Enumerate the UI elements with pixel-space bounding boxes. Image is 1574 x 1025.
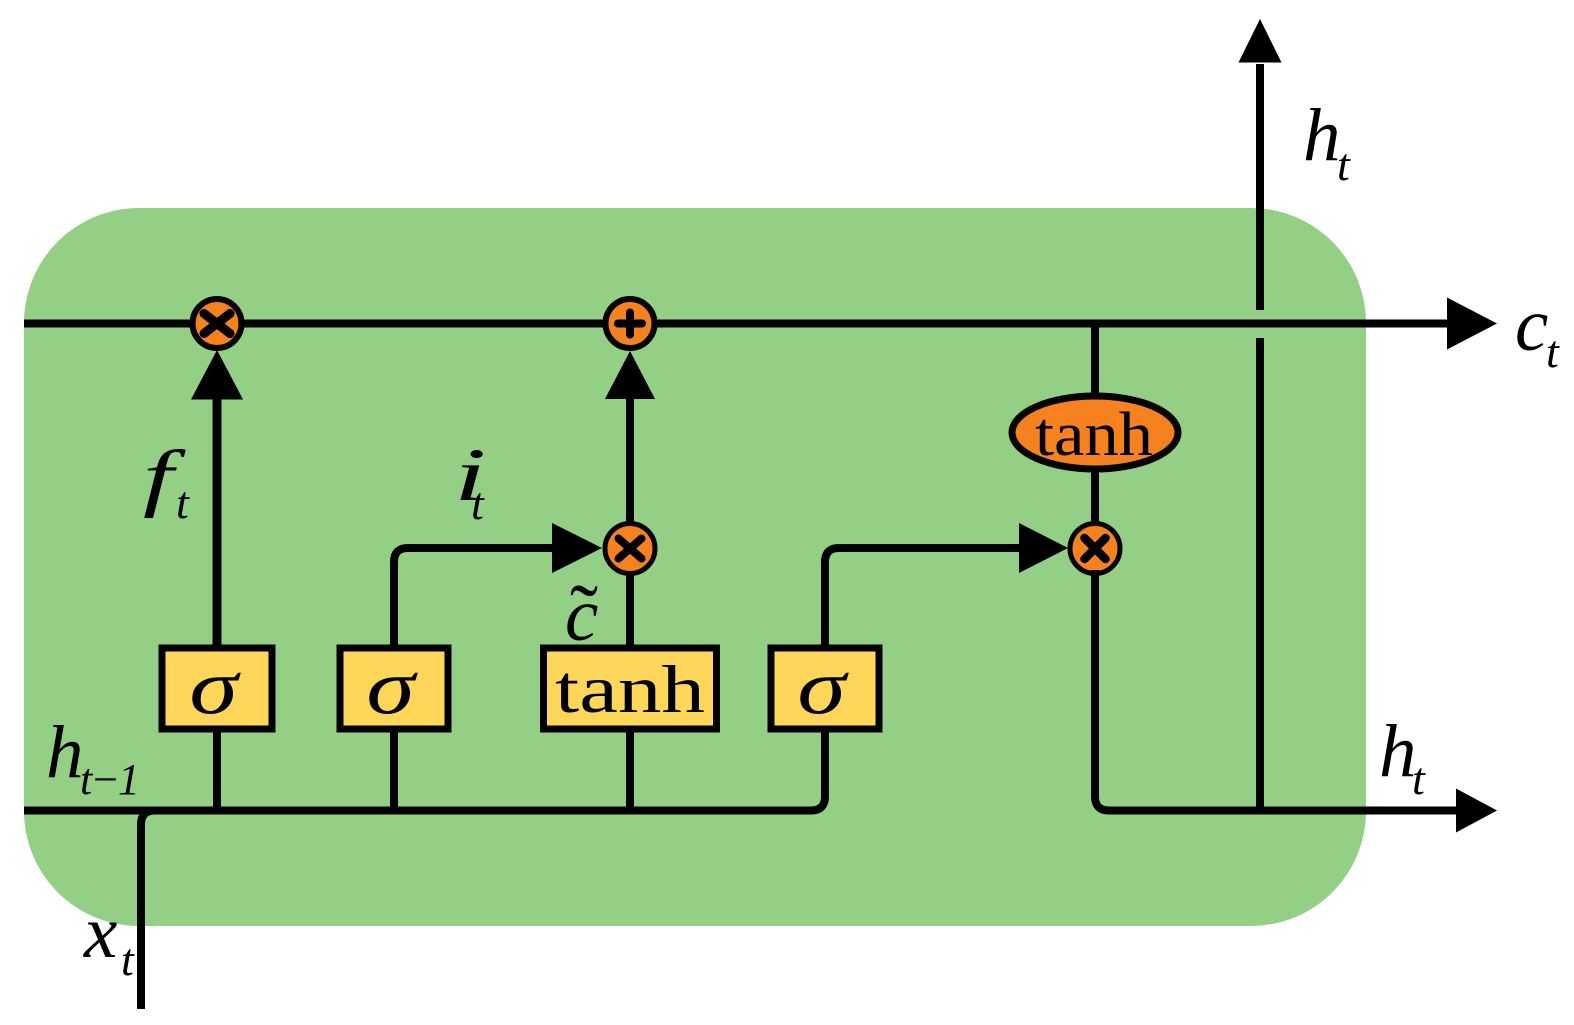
LSTM cell body — [24, 208, 1366, 926]
svg-text:tanh: tanh — [1035, 401, 1153, 469]
svg-text:t: t — [1337, 139, 1351, 190]
wire: sigma2 bottom tap — [390, 729, 398, 810]
multiply node 2 — [605, 524, 655, 574]
arrowhead c_t — [1447, 298, 1497, 350]
multiply node (forget) — [193, 299, 242, 348]
sigma3 box — [771, 648, 879, 729]
svg-text:t: t — [1412, 753, 1426, 804]
svg-text:t: t — [176, 477, 190, 528]
svg-text:tanh: tanh — [555, 651, 705, 727]
wire: sigma1 bottom tap — [213, 729, 221, 810]
sigma2 box — [340, 648, 448, 729]
multiply node 3 — [1070, 524, 1120, 574]
wire: internal h_t vertical (upper segment), arrow — [1256, 64, 1264, 310]
svg-text:σ: σ — [189, 644, 241, 730]
tanh ellipse — [1012, 396, 1178, 469]
svg-text:x: x — [83, 891, 117, 974]
wire: internal h_t vertical (lower segment) — [1256, 338, 1264, 810]
tanh box — [544, 648, 717, 729]
wire: tanh box bottom tap — [626, 729, 634, 810]
wire: cell state line c — [24, 320, 1449, 328]
svg-text:t−1: t−1 — [80, 755, 138, 804]
svg-text:σ: σ — [366, 644, 418, 730]
wire: sigma3 to multiply node 3, arrow — [825, 548, 1021, 648]
wire: multiply2 to add node, arrow — [626, 398, 634, 524]
svg-text:h: h — [1303, 94, 1341, 177]
wire: output h, down from multiply3, right to arrow — [1095, 570, 1458, 811]
wire: sigma1 to multiply node, arrow — [213, 396, 222, 648]
svg-text:t: t — [471, 478, 485, 529]
svg-text:h: h — [1379, 710, 1417, 793]
wire: tanh box top to multiply node 2 — [626, 573, 634, 648]
svg-text:t: t — [121, 934, 135, 985]
svg-text:σ: σ — [797, 644, 849, 730]
svg-text:h: h — [46, 711, 84, 794]
sigma1 box — [162, 648, 272, 729]
wire: ellipse to multiply node 3 — [1091, 472, 1099, 524]
svg-text:c: c — [1515, 284, 1548, 367]
wire: c line to tanh ellipse — [1091, 327, 1099, 395]
wire: bus h_{t-1} to gates — [24, 729, 825, 811]
svg-text:˜: ˜ — [570, 568, 598, 661]
svg-text:t: t — [1546, 326, 1560, 377]
add node — [606, 299, 655, 348]
wire: x_t input — [141, 811, 200, 1010]
wire: sigma2 to multiply node 2, arrow — [394, 548, 554, 648]
